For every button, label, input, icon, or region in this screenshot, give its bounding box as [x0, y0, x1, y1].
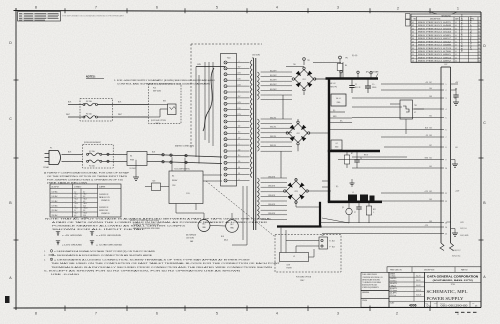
edge smudge bottom left [5, 296, 10, 303]
title block finish box [361, 299, 389, 308]
svg-text:10: 10 [445, 168, 447, 170]
note text below table [45, 217, 272, 231]
svg-text:01: 01 [478, 22, 480, 24]
ground flag legend 12V1 [56, 241, 83, 247]
svg-text:1-5: 1-5 [74, 206, 76, 208]
svg-text:REVISIONS: REVISIONS [441, 15, 451, 17]
svg-text:JUMPER FOR: JUMPER FOR [99, 194, 108, 196]
transformer secondary winding 2 [258, 119, 260, 151]
svg-text:BLU-WHT: BLU-WHT [270, 80, 277, 82]
svg-text:TB6-9: TB6-9 [83, 203, 87, 205]
svg-text:R4: R4 [345, 65, 347, 67]
svg-text:13: 13 [412, 61, 414, 63]
svg-text:RED-YEL: RED-YEL [270, 127, 276, 129]
svg-text:6: 6 [156, 312, 158, 316]
svg-text:TB1-5: TB1-5 [74, 208, 78, 210]
svg-text:(F)+ (F)−: (F)+ (F)− [352, 55, 358, 57]
handwritten leader arrow inside T20 area [203, 68, 214, 131]
svg-text:TB1-2: TB1-2 [74, 194, 78, 196]
svg-text:6-8: 6-8 [83, 196, 85, 198]
svg-text:4-7: 4-7 [455, 61, 457, 63]
svg-text:C9: C9 [454, 98, 456, 100]
svg-text:8: 8 [35, 312, 37, 316]
svg-text:NOTE: THAT AC INPUT VOLTAGE IS: NOTE: THAT AC INPUT VOLTAGE IS ALWAYS AP… [45, 217, 272, 220]
wire to connector J1 row 2 [381, 89, 441, 91]
notes heading and note 1 text [86, 76, 216, 86]
heavy bus bar mid horizontal [328, 150, 380, 152]
regulator A1 box [331, 94, 346, 106]
fuse F1 [87, 150, 102, 156]
svg-text:D: D [9, 41, 12, 45]
wire bridge CR3 lower output [296, 202, 321, 207]
svg-text:3300: 3300 [335, 147, 339, 149]
svg-text:CODE: CODE [434, 303, 438, 305]
svg-text:L1: L1 [352, 192, 354, 194]
svg-text:4906: 4906 [409, 303, 417, 307]
svg-text:RELAY: RELAY [172, 179, 178, 182]
svg-text:BLU-WHT: BLU-WHT [270, 75, 277, 77]
tap jumper wires to primary winding [227, 63, 250, 181]
wire to connector J1 row 6 [330, 129, 441, 131]
svg-text:OF THE STRAPPING OPTION OF THR: OF THE STRAPPING OPTION OF THREE INPUT T… [47, 175, 129, 178]
wire to fuse F4 left [68, 116, 83, 118]
wire to connector J1 row 1 [381, 83, 441, 85]
svg-text:11: 11 [412, 54, 414, 56]
svg-text:F4 15A: F4 15A [86, 113, 92, 116]
components under mid bus [344, 152, 407, 168]
wire label smudges near connector [429, 82, 432, 223]
wire plug to fuse box top [62, 153, 84, 155]
svg-text:REV: REV [472, 303, 475, 305]
svg-text:FINISH: FINISH [362, 300, 367, 302]
svg-text:DESCRIPTION: DESCRIPTION [430, 19, 440, 21]
wire switch to connector top [147, 154, 222, 157]
svg-text:FIRST USED ON: FIRST USED ON [390, 270, 402, 272]
svg-text:15: 15 [445, 233, 447, 235]
svg-text:S1: S1 [130, 156, 132, 158]
secondary tap wires group 3 [261, 178, 287, 219]
connector strip J1 rails [441, 67, 451, 243]
svg-text:11: 11 [445, 193, 447, 195]
svg-text:REV PER ECO 0892: REV PER ECO 0892 [418, 61, 451, 63]
svg-text:FS: FS [238, 167, 240, 169]
svg-text:TB6-8: TB6-8 [83, 198, 87, 200]
svg-text:5: 5 [216, 312, 218, 316]
label +5V right of connector [451, 82, 459, 84]
bridge CR3 top stub wire [295, 178, 297, 180]
svg-text:(F)+: (F)+ [340, 120, 343, 122]
svg-text:10: 10 [478, 51, 480, 53]
svg-text:REV PER ECO 0642: REV PER ECO 0642 [418, 41, 451, 43]
zone numbers top edge [35, 6, 459, 11]
svg-text:(SEE TABLE BELOW): (SEE TABLE BELOW) [47, 182, 88, 185]
svg-text:10: 10 [412, 51, 414, 53]
wire from fuse F3 right [98, 104, 149, 106]
svg-text:G,H,J,K 3,4: G,H,J,K 3,4 [452, 256, 460, 258]
svg-text:110: 110 [238, 132, 240, 134]
wire from fuse F4 right [98, 116, 149, 118]
transformer T20 core [254, 58, 256, 230]
wire to connector J1 row 3 [352, 97, 441, 99]
terminal block TB2 [319, 235, 328, 249]
tap terminals with screws [224, 61, 227, 182]
title block scale row with code [389, 301, 425, 307]
thermostat TS1 box [390, 100, 424, 119]
wire bridge CR3 output [307, 190, 331, 192]
svg-text:Q1: Q1 [342, 207, 344, 209]
bridge rectifier CR1 [292, 67, 316, 91]
input voltage selection table [50, 184, 121, 219]
svg-text:13: 13 [478, 61, 480, 63]
svg-text:1: 1 [446, 84, 447, 86]
T20 assembly dashed boundary [191, 44, 262, 148]
svg-text:R20: R20 [153, 181, 156, 183]
svg-text:4-7: 4-7 [455, 32, 457, 34]
svg-text:115V: 115V [237, 79, 240, 81]
secondary tap wires group 2 [261, 119, 292, 151]
svg-text:4-7: 4-7 [455, 45, 457, 47]
svg-text:F2 15A: F2 15A [89, 164, 95, 167]
label GRN top of T20 [196, 64, 226, 67]
svg-text:06: 06 [478, 38, 480, 40]
note 3 designates symbol [44, 254, 153, 257]
svg-text:5: 5 [216, 6, 218, 10]
svg-text:100: 100 [238, 149, 241, 151]
svg-text:RV1: RV1 [163, 101, 166, 103]
svg-text:4-7: 4-7 [455, 57, 457, 59]
comparator input wire [352, 106, 402, 108]
line filter L2 box [280, 253, 309, 270]
svg-text:08: 08 [478, 45, 480, 47]
svg-text:C: C [483, 121, 486, 125]
svg-text:BL2: BL2 [429, 191, 432, 193]
ground flag legend 12V [90, 232, 122, 238]
svg-text:07: 07 [478, 41, 480, 43]
svg-text:2-7: 2-7 [74, 210, 76, 212]
filter capacitor C1 [365, 80, 376, 93]
svg-text:3: 3 [337, 6, 339, 10]
heavy bus bar bottom minus horizontal [277, 225, 322, 227]
secondary group 1 wire labels [270, 70, 277, 90]
svg-text:4: 4 [446, 109, 447, 111]
leader lines from top border to revisions table [428, 12, 458, 15]
svg-text:1-4: 1-4 [74, 201, 76, 203]
svg-text:95V: 95V [238, 67, 241, 69]
svg-text:125V: 125V [237, 84, 240, 86]
ground symbol right of connector mid [451, 160, 458, 168]
svg-text:115VAC: 115VAC [43, 166, 50, 169]
svg-text:BL2: BL2 [429, 158, 432, 160]
svg-text:TB2: TB2 [321, 235, 324, 237]
secondary group 3 wire labels [268, 176, 275, 215]
fuse F4 [83, 113, 98, 119]
svg-text:TITLE: TITLE [451, 284, 455, 286]
stub wire F minus label [330, 110, 345, 112]
relay K1 box [169, 171, 203, 204]
svg-text:J1-2,3 +5: J1-2,3 +5 [460, 228, 467, 230]
capacitor C2 below bus [349, 80, 360, 93]
svg-text:L2: L2 [293, 256, 295, 258]
junction dots on bus [351, 78, 369, 80]
heavy bus bar lower horizontal [328, 201, 382, 204]
diagonal wire to minus bus [322, 218, 349, 223]
sense components below lower bus [342, 202, 376, 223]
svg-text:BL7: BL7 [429, 145, 432, 147]
svg-text:PL3: PL3 [153, 88, 156, 90]
svg-text:WHT: WHT [118, 114, 122, 116]
wire CR1 top to test point column [313, 62, 341, 64]
svg-text:← (F)−: ← (F)− [334, 186, 339, 188]
svg-text:T20 (COMPONENTS): T20 (COMPONENTS) [174, 169, 190, 171]
svg-text:J1-P: J1-P [444, 64, 447, 66]
svg-text:TB2-7: TB2-7 [74, 212, 78, 214]
svg-text:= DESIGNATES A SOLDERED CONNEC: = DESIGNATES A SOLDERED CONNECTION AS SH… [54, 254, 153, 257]
svg-text:R9 1K: R9 1K [364, 155, 368, 157]
revision table rows [411, 22, 481, 63]
svg-text:ORN-GRN: ORN-GRN [268, 213, 275, 215]
svg-text:BL2: BL2 [429, 116, 432, 118]
svg-text:(MATING CONNECTOR): (MATING CONNECTOR) [175, 145, 194, 148]
svg-text:6: 6 [446, 129, 447, 131]
50Hz option dashed box [275, 235, 341, 273]
svg-text:4: 4 [276, 312, 278, 316]
note 2 designates symbol [44, 250, 156, 253]
bridge CR2 bottom stub wire [297, 145, 299, 152]
choke L1 blobs on lower bus [348, 192, 375, 201]
svg-text:35000: 35000 [372, 87, 376, 89]
svg-text:REV PER ECO 0503: REV PER ECO 0503 [418, 28, 451, 30]
bridge CR1 bottom stub wire [303, 92, 305, 95]
svg-text:REV PER ECO 0421: REV PER ECO 0421 [418, 22, 451, 24]
svg-text:TB3-8: TB3-8 [83, 212, 87, 214]
svg-text:USE -0-0400: USE -0-0400 [51, 274, 79, 276]
svg-text:115V 60HZ: 115V 60HZ [252, 55, 260, 57]
svg-text:04: 04 [412, 32, 414, 34]
fuse option dashed box F3 F4 [80, 99, 113, 122]
svg-text:2: 2 [396, 312, 398, 316]
connector pins after fuses [107, 153, 109, 162]
wire switch to connector bottom [147, 161, 222, 163]
svg-text:SEE ECO HISTORY FILE FOR DATES: SEE ECO HISTORY FILE FOR DATES [461, 13, 464, 52]
svg-text:9: 9 [446, 159, 447, 161]
series link wire secondary group 2 to 3 [280, 151, 282, 178]
transformer secondary winding 1 [258, 72, 260, 100]
svg-text:R11: R11 [373, 209, 376, 211]
labels J1 destinations bottom right [452, 222, 469, 258]
svg-text:LINE: LINE [287, 265, 290, 267]
svg-text:= ±12V GROUND: = ±12V GROUND [96, 235, 122, 237]
svg-text:REG TP4: REG TP4 [331, 86, 338, 88]
svg-text:TB1-4: TB1-4 [74, 203, 78, 205]
note 4 text lines [44, 258, 282, 269]
tap voltage labels [237, 61, 240, 181]
wire fuses to switch bottom [102, 160, 127, 162]
svg-text:CR3: CR3 [294, 191, 297, 193]
T20 tap terminal strip [221, 54, 237, 187]
svg-text:REV PER ECO 0801: REV PER ECO 0801 [418, 54, 451, 56]
wire to connector J1 row 13 [320, 222, 441, 224]
fuse F3 [83, 100, 98, 106]
mating connector pins on AC line [162, 154, 187, 164]
svg-text:5. EXCEPT AS SHOWN FOR 50 HZ: 5. EXCEPT AS SHOWN FOR 50 HZ OPERATION, … [44, 270, 242, 273]
wires inside 50Hz box [281, 228, 319, 257]
title block company name area [425, 272, 482, 307]
svg-text:BL2: BL2 [230, 224, 233, 226]
svg-text:WHT: WHT [66, 114, 70, 116]
svg-text:4-7: 4-7 [455, 48, 457, 50]
svg-text:3: 3 [446, 98, 447, 100]
wire bridge CR1 output to bus [315, 78, 326, 80]
stub wire F plus label [330, 120, 352, 122]
comparator A3 box [391, 96, 393, 98]
svg-text:4-7: 4-7 [455, 54, 457, 56]
wire to fuse F3 left [68, 104, 83, 106]
svg-text:6: 6 [156, 6, 158, 10]
svg-text:12: 12 [412, 57, 414, 59]
svg-text:8: 8 [35, 6, 37, 10]
svg-text:09: 09 [478, 48, 480, 50]
svg-text:TB6-10: TB6-10 [83, 208, 88, 210]
svg-text:BLU-WHT: BLU-WHT [270, 89, 277, 91]
wire to connector J1 row 12 [381, 200, 442, 202]
heavy bus bar vertical left upper [328, 79, 330, 152]
transformer primary winding [250, 60, 252, 178]
svg-text:REV PER ECO 0617: REV PER ECO 0617 [418, 38, 451, 40]
svg-text:4-7: 4-7 [455, 51, 457, 53]
svg-text:120: 120 [238, 138, 241, 140]
svg-text:4-7: 4-7 [455, 25, 457, 27]
svg-text:FS: FS [238, 173, 240, 175]
svg-text:REV PER ECO 0688: REV PER ECO 0688 [418, 45, 451, 47]
svg-text:= 12V1 GROUND: = 12V1 GROUND [62, 244, 83, 246]
table heading text [44, 172, 131, 185]
svg-text:1. FOR -0400 PWR SUPPLY SCHEMA: 1. FOR -0400 PWR SUPPLY SCHEMATIC (B SIZ… [114, 79, 216, 82]
svg-text:1: 1 [457, 6, 459, 10]
svg-text:110: 110 [238, 155, 240, 157]
svg-text:02: 02 [412, 25, 414, 27]
svg-text:= COM GROUND: = COM GROUND [96, 244, 123, 246]
svg-text:7: 7 [95, 312, 97, 316]
svg-text:105V: 105V [237, 102, 240, 104]
svg-text:3: 3 [337, 312, 339, 316]
svg-text:JUMPER: JUMPER [99, 186, 106, 188]
svg-text:J1-4,5 GND: J1-4,5 GND [460, 235, 469, 237]
svg-text:.1: .1 [373, 212, 374, 214]
svg-text:02: 02 [478, 25, 480, 27]
svg-text:(FOR 50HZ OPTION: (FOR 50HZ OPTION [151, 120, 167, 122]
svg-text:C4: C4 [336, 143, 338, 145]
svg-text:THE MAY BE USED ON THE COMPLET: THE MAY BE USED ON THE COMPLETION OF FAS… [51, 262, 282, 265]
svg-text:07: 07 [412, 41, 414, 43]
wire to connector J1 row 7 [381, 136, 441, 138]
test point above bridge CR1 [286, 58, 310, 67]
svg-text:P1: P1 [50, 148, 52, 150]
svg-text:POWER SUPPLY: POWER SUPPLY [427, 296, 465, 301]
svg-text:95V: 95V [238, 96, 241, 98]
label for 50Hz option under varistor box [151, 120, 167, 125]
ECO tag boxes left of revisions table [406, 14, 411, 27]
svg-text:BLU-WHT: BLU-WHT [270, 84, 277, 86]
revisions table [411, 14, 481, 63]
svg-text:TS1: TS1 [414, 105, 417, 107]
svg-text:(SOUTHBORO, MASS. 01772): (SOUTHBORO, MASS. 01772) [433, 279, 473, 282]
wire fuses to switch top [102, 153, 127, 155]
svg-text:GRN: GRN [333, 116, 336, 118]
transformer secondary winding 3 [258, 178, 260, 219]
capacitor and ground right of connector bottom [444, 222, 458, 236]
svg-text:S1 2407: S1 2407 [130, 168, 136, 170]
small component box left of K1 [145, 181, 169, 191]
svg-text:5: 5 [446, 117, 447, 119]
svg-text:= DESIGNATES A LUGGED CONNECTI: = DESIGNATES A LUGGED CONNECTION, SCREW … [54, 258, 252, 261]
heavy bus bar +5V top horizontal [326, 77, 379, 80]
varistor option dashed box [149, 84, 182, 124]
svg-text:105V: 105V [237, 73, 240, 75]
svg-text:BL8: BL8 [429, 221, 432, 223]
svg-text:3-8: 3-8 [83, 210, 85, 212]
fan labels below [186, 234, 228, 244]
svg-text:CR2: CR2 [296, 133, 299, 135]
svg-text:6-9: 6-9 [83, 201, 85, 203]
svg-text:TP2: TP2 [345, 58, 348, 60]
wire to connector J1 row 11 [381, 192, 441, 194]
svg-text:(F)−: (F)− [333, 110, 336, 112]
fuse F2 [87, 160, 102, 167]
zone numbers bottom edge [35, 312, 459, 316]
secondary tap wires group 1 [261, 72, 292, 100]
test point stubs on bus [340, 71, 372, 78]
svg-text:POSSIBLE NEAREST ALLOWED AS SH: POSSIBLE NEAREST ALLOWED AS SHALL CENTER… [52, 225, 187, 228]
svg-text:5-10: 5-10 [83, 215, 86, 217]
primary feed wire vertical 3 [204, 62, 206, 140]
svg-text:ORN-GRN: ORN-GRN [268, 176, 275, 178]
vertical wires strip to fan area [232, 186, 247, 245]
svg-text:C2: C2 [355, 84, 357, 86]
svg-text:13: 13 [445, 222, 447, 224]
svg-text:12: 12 [478, 57, 480, 59]
primary feed wire vertical 2 [198, 75, 200, 164]
svg-text:A TWENTY CONFIGURATION DETAIL: A TWENTY CONFIGURATION DETAIL FOR USE OF… [44, 172, 131, 175]
svg-text:4-9: 4-9 [74, 215, 76, 217]
svg-text:2: 2 [446, 90, 447, 92]
AC line plug P1 [43, 148, 61, 169]
svg-text:05: 05 [478, 35, 480, 37]
svg-text:ORN-GRN: ORN-GRN [268, 204, 275, 206]
svg-text:ORN-GRN: ORN-GRN [268, 186, 275, 188]
revision notice box [18, 12, 61, 22]
svg-text:REV PER ECO 0468: REV PER ECO 0468 [418, 25, 451, 27]
svg-text:F1 15A: F1 15A [89, 150, 95, 153]
svg-text:09: 09 [412, 48, 414, 50]
ground flag legend COM [90, 241, 123, 247]
wire to connector J1 row 4 [414, 108, 441, 110]
wire between fans [210, 225, 226, 228]
svg-text:BL7: BL7 [429, 82, 432, 84]
secondary group 2 wire labels [270, 117, 276, 147]
note 5 text lines [44, 270, 242, 277]
svg-text:D: D [427, 304, 429, 308]
svg-text:REV PER ECO 0544: REV PER ECO 0544 [418, 32, 451, 34]
svg-text:TP1: TP1 [307, 60, 310, 62]
title block approvals column [389, 272, 425, 307]
stub wire GRN label [330, 116, 352, 118]
svg-text:ONLY): ONLY) [155, 123, 160, 125]
regulator A2 label [331, 82, 338, 88]
stub wires on lower bus left [322, 181, 339, 188]
heavy bus bar vertical left lower [328, 151, 330, 202]
svg-text:4-7: 4-7 [455, 28, 457, 30]
svg-text:03: 03 [478, 28, 480, 30]
